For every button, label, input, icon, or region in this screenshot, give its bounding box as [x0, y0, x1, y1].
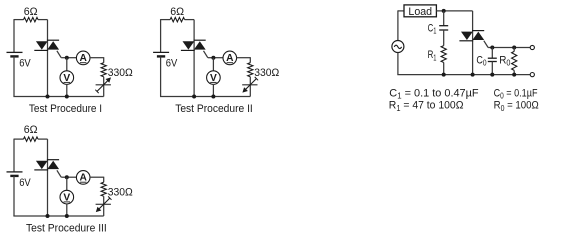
wire: bottom rail — [397, 74, 530, 76]
rheostat wiper arrow — [242, 84, 257, 86]
svg-text:Test Procedure II: Test Procedure II — [175, 103, 253, 115]
svg-text:R0 = 100Ω: R0 = 100Ω — [494, 100, 539, 113]
terminal: gate output — [530, 45, 534, 49]
node: C0 top junction — [490, 46, 494, 50]
wire: bottom rail — [13, 215, 103, 217]
wire: ammeter to rheostat — [90, 176, 104, 178]
wire: ammeter to rheostat — [236, 57, 250, 59]
wire: gate to ammeter — [61, 176, 76, 178]
node: R1 / bottom rail — [442, 73, 446, 77]
wire: gate lead diagonal — [57, 51, 61, 58]
svg-text:R1 = 47 to 100Ω: R1 = 47 to 100Ω — [389, 100, 464, 113]
wire: R1 to bottom rail — [443, 63, 445, 75]
svg-text:6V: 6V — [19, 58, 31, 70]
wire: AC source to bottom rail — [397, 53, 399, 75]
wire: gate lead diagonal — [57, 170, 61, 177]
AC source — [392, 41, 404, 53]
wire: battery negative to bottom rail — [13, 176, 15, 216]
wire: ammeter to rheostat — [90, 57, 104, 59]
load box — [404, 5, 436, 17]
wire: rheostat bottom lead — [103, 196, 105, 216]
rheostat wiper arrow — [96, 84, 111, 86]
resistor 6 ohm — [24, 17, 39, 21]
wire: gate node to voltmeter — [212, 58, 214, 71]
wire: gate to ammeter — [208, 57, 223, 59]
resistor R1 — [441, 46, 446, 63]
wire: left vertical to AC source — [397, 10, 399, 40]
wire: voltmeter to bottom rail — [66, 84, 68, 97]
svg-text:6Ω: 6Ω — [24, 124, 38, 136]
svg-text:330Ω: 330Ω — [254, 67, 279, 79]
rheostat 330 ohm resistor body — [101, 182, 106, 196]
svg-text:330Ω: 330Ω — [108, 67, 133, 79]
node: voltmeter / bottom rail — [211, 95, 215, 99]
wire: top rail left segment — [161, 19, 171, 21]
wire: R0 upper lead — [513, 48, 515, 52]
triac — [194, 39, 206, 41]
ammeter A — [76, 51, 90, 65]
wire: top rail right segment — [38, 19, 48, 21]
node: gate junction — [65, 175, 69, 179]
svg-text:330Ω: 330Ω — [108, 186, 133, 198]
triac — [47, 39, 59, 41]
wire: top rail left segment — [14, 138, 24, 140]
resistor R0 — [512, 51, 517, 70]
triac — [472, 30, 484, 32]
wire: top rail right segment — [185, 19, 195, 21]
wire: gate lead diagonal — [204, 51, 208, 58]
wire: C0 upper lead — [491, 48, 493, 59]
svg-text:Test Procedure III: Test Procedure III — [26, 222, 107, 234]
node: main wire / bottom rail — [46, 214, 50, 218]
rheostat wiper arrow — [96, 203, 111, 205]
voltmeter V — [60, 71, 74, 85]
wire: battery negative to bottom rail — [160, 56, 162, 96]
wire: left vertical to battery — [13, 139, 15, 172]
node: C0 / bottom rail — [490, 73, 494, 77]
wire: C1 to R1 — [443, 30, 445, 46]
wire: gate lead diagonal — [484, 41, 488, 48]
wire: rheostat top lead — [103, 57, 105, 63]
battery 6V negative plate — [10, 55, 18, 57]
node: gate junction — [65, 56, 69, 60]
battery 6V negative plate — [157, 55, 165, 57]
wire: rheostat bottom lead — [103, 77, 105, 97]
node: gate junction — [211, 56, 215, 60]
capacitor C0 top plate — [488, 57, 497, 59]
voltmeter V — [207, 71, 221, 85]
svg-text:C1 = 0.1 to 0.47µF: C1 = 0.1 to 0.47µF — [389, 87, 478, 100]
wire: C1 upper lead — [443, 11, 445, 26]
node: main wire / bottom rail — [192, 95, 196, 99]
wire: main vertical through triac — [47, 139, 49, 216]
ammeter A — [76, 171, 90, 185]
node: main wire / bottom rail — [46, 95, 50, 99]
wire: gate node to voltmeter — [66, 177, 68, 190]
wire: C0 lower lead — [491, 62, 493, 75]
wire: left vertical to battery — [13, 19, 15, 52]
svg-text:6V: 6V — [19, 177, 31, 189]
rheostat 330 ohm resistor body — [101, 63, 106, 77]
svg-text:Load: Load — [408, 6, 432, 18]
wire: left vertical to battery — [160, 19, 162, 52]
capacitor C1 bottom plate — [439, 29, 448, 31]
resistor 6 ohm — [170, 17, 185, 21]
wire: bottom rail — [160, 96, 250, 98]
wire: main vertical through triac — [193, 20, 195, 97]
ammeter A — [223, 51, 237, 65]
svg-text:Test Procedure I: Test Procedure I — [29, 103, 102, 115]
voltmeter V — [60, 190, 74, 204]
wire: voltmeter to bottom rail — [212, 84, 214, 97]
wire: rheostat top lead — [103, 177, 105, 183]
capacitor C0 bottom plate — [488, 61, 497, 63]
wire: rheostat bottom lead — [249, 77, 251, 97]
wire: top rail left segment — [14, 19, 24, 21]
wire: bottom rail — [13, 96, 103, 98]
wire: top rail left stub — [398, 10, 405, 12]
wire: main vertical through triac — [47, 20, 49, 97]
wire: rheostat top lead — [249, 57, 251, 63]
battery 6V positive plate — [7, 51, 23, 53]
resistor 6 ohm — [24, 137, 39, 141]
terminal: bottom output — [530, 73, 534, 77]
triac — [47, 159, 59, 161]
node: voltmeter / bottom rail — [65, 95, 69, 99]
wire: voltmeter to bottom rail — [66, 204, 68, 217]
wire: top rail to corner — [436, 10, 472, 12]
wire: main vertical through triac — [472, 11, 474, 75]
wire: gate rail to terminal — [488, 47, 530, 49]
battery 6V positive plate — [153, 51, 169, 53]
wire: battery negative to bottom rail — [13, 56, 15, 96]
svg-text:6Ω: 6Ω — [24, 6, 38, 18]
node: R0 top junction — [512, 46, 516, 50]
svg-text:6Ω: 6Ω — [170, 6, 184, 18]
battery 6V negative plate — [10, 175, 18, 177]
node: C1 top junction — [442, 9, 446, 13]
node: triac / bottom rail — [471, 73, 475, 77]
wire: gate to ammeter — [61, 57, 76, 59]
node: voltmeter / bottom rail — [65, 214, 69, 218]
wire: top rail right segment — [38, 138, 48, 140]
wire: R0 lower lead — [513, 70, 515, 74]
battery 6V positive plate — [7, 171, 23, 173]
svg-text:6V: 6V — [166, 58, 178, 70]
node: R0 / bottom rail — [512, 73, 516, 77]
rheostat 330 ohm resistor body — [248, 63, 253, 77]
wire: gate node to voltmeter — [66, 58, 68, 71]
capacitor C1 top plate — [439, 25, 448, 27]
